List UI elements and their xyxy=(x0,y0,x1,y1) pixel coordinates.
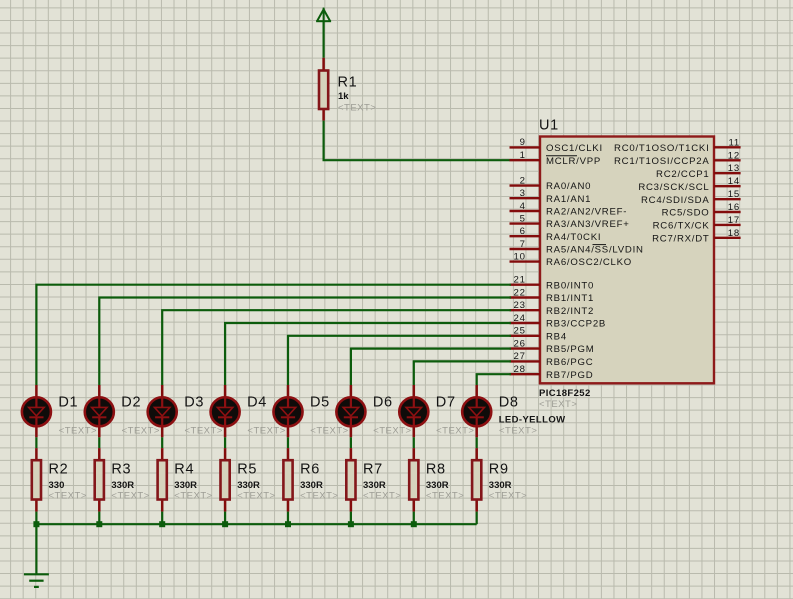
svg-text:RC7/RX/DT: RC7/RX/DT xyxy=(652,233,709,244)
LED D1 xyxy=(22,385,51,437)
svg-text:<TEXT>: <TEXT> xyxy=(436,426,474,437)
LED D4 xyxy=(211,385,240,437)
svg-text:RA2/AN2/VREF-: RA2/AN2/VREF- xyxy=(546,207,627,218)
pin 1 MCLR/VPP xyxy=(510,150,602,167)
svg-text:<TEXT>: <TEXT> xyxy=(338,103,376,114)
svg-text:25: 25 xyxy=(514,326,526,337)
svg-text:R6: R6 xyxy=(300,461,320,477)
wire D4 to R5 xyxy=(224,437,226,448)
pin 14 RC3/SCK/SCL xyxy=(638,176,740,193)
svg-text:OSC1/CLKI: OSC1/CLKI xyxy=(546,143,603,154)
svg-text:RB7/PGD: RB7/PGD xyxy=(546,370,593,381)
pin 28 RB7/PGD xyxy=(510,364,594,381)
svg-text:D8: D8 xyxy=(499,395,519,411)
resistor R2 xyxy=(32,448,41,512)
junction xyxy=(411,521,417,527)
junction xyxy=(348,521,354,527)
pin 21 RB0/INT0 xyxy=(510,275,595,292)
svg-text:RB1/INT1: RB1/INT1 xyxy=(546,293,594,304)
svg-text:11: 11 xyxy=(728,137,740,148)
pin 3 RA1/AN1 xyxy=(510,188,592,205)
svg-text:RA0/AN0: RA0/AN0 xyxy=(546,181,591,192)
svg-text:330R: 330R xyxy=(111,480,134,491)
svg-text:330R: 330R xyxy=(363,480,386,491)
svg-text:<TEXT>: <TEXT> xyxy=(310,426,348,437)
wire RB1 (pin 22) to D2 xyxy=(99,298,511,386)
svg-text:15: 15 xyxy=(728,189,740,200)
svg-text:<TEXT>: <TEXT> xyxy=(237,490,275,501)
MCLR overline xyxy=(546,155,577,157)
svg-text:330R: 330R xyxy=(300,480,323,491)
junction xyxy=(96,521,102,527)
svg-text:13: 13 xyxy=(728,163,740,174)
svg-text:R2: R2 xyxy=(49,461,69,477)
svg-text:330R: 330R xyxy=(237,480,260,491)
svg-text:<TEXT>: <TEXT> xyxy=(111,490,149,501)
wire R3 to bus xyxy=(98,512,100,525)
svg-text:1: 1 xyxy=(520,150,526,161)
svg-text:27: 27 xyxy=(514,351,526,362)
svg-text:330R: 330R xyxy=(426,480,449,491)
resistor R6 xyxy=(283,448,292,512)
svg-text:18: 18 xyxy=(728,228,740,239)
junction xyxy=(285,521,291,527)
ground xyxy=(24,574,49,587)
SS overline xyxy=(593,244,607,246)
svg-text:10: 10 xyxy=(514,251,526,262)
svg-text:28: 28 xyxy=(514,364,526,375)
LED D3 xyxy=(148,385,177,437)
pin 17 RC6/TX/CK xyxy=(653,215,741,232)
svg-text:RB0/INT0: RB0/INT0 xyxy=(546,280,594,291)
wire RB0 (pin 21) to D1 xyxy=(36,285,511,385)
svg-text:RC0/T1OSO/T1CKI: RC0/T1OSO/T1CKI xyxy=(614,143,709,154)
svg-text:D4: D4 xyxy=(247,395,267,411)
svg-text:14: 14 xyxy=(728,176,740,187)
svg-text:RB3/CCP2B: RB3/CCP2B xyxy=(546,319,606,330)
svg-text:17: 17 xyxy=(728,215,740,226)
svg-text:1k: 1k xyxy=(338,91,349,102)
wire D8 to R9 xyxy=(476,437,478,448)
pin 24 RB3/CCP2B xyxy=(510,313,607,330)
svg-text:D2: D2 xyxy=(121,395,141,411)
svg-text:RC3/SCK/SCL: RC3/SCK/SCL xyxy=(638,182,709,193)
wire RB7 (pin 28) to D8 xyxy=(477,374,511,385)
junction xyxy=(33,521,39,527)
svg-text:RB4: RB4 xyxy=(546,331,567,342)
resistor R3 xyxy=(95,448,104,512)
svg-text:R4: R4 xyxy=(174,461,194,477)
pin 5 RA3/AN3/VREF+ xyxy=(510,213,630,230)
resistor R1 xyxy=(319,58,328,121)
svg-text:D6: D6 xyxy=(373,395,393,411)
svg-text:<TEXT>: <TEXT> xyxy=(300,490,338,501)
resistor R9 xyxy=(472,448,481,512)
svg-text:LED-YELLOW: LED-YELLOW xyxy=(499,415,566,426)
svg-text:PIC18F252: PIC18F252 xyxy=(539,388,591,399)
pin 9 OSC1/CLKI xyxy=(510,137,603,154)
pin 12 RC1/T1OSI/CCP2A xyxy=(614,150,741,167)
svg-text:12: 12 xyxy=(728,150,740,161)
power symbol VCC xyxy=(316,8,331,22)
svg-text:R7: R7 xyxy=(363,461,383,477)
svg-text:<TEXT>: <TEXT> xyxy=(49,490,87,501)
pin 6 RA4/T0CKI xyxy=(510,226,602,243)
svg-text:<TEXT>: <TEXT> xyxy=(426,490,464,501)
pin 23 RB2/INT2 xyxy=(510,300,595,317)
svg-text:MCLR/VPP: MCLR/VPP xyxy=(546,156,601,167)
wire RB2 (pin 23) to D3 xyxy=(162,310,511,385)
wire R6 to bus xyxy=(287,512,289,525)
svg-text:D5: D5 xyxy=(310,395,330,411)
LED D5 xyxy=(273,385,302,437)
svg-text:RB5/PGM: RB5/PGM xyxy=(546,344,594,355)
svg-text:RA4/T0CKI: RA4/T0CKI xyxy=(546,232,601,243)
resistor R8 xyxy=(409,448,418,512)
svg-text:5: 5 xyxy=(520,213,526,224)
wire D7 to R8 xyxy=(413,437,415,448)
svg-text:6: 6 xyxy=(520,226,526,237)
svg-text:22: 22 xyxy=(514,287,526,298)
svg-text:R3: R3 xyxy=(111,461,131,477)
pin 4 RA2/AN2/VREF- xyxy=(510,201,628,218)
wire bus to ground xyxy=(35,524,37,574)
pin 7 RA5/AN4/SS/LVDIN xyxy=(510,239,644,256)
svg-text:D7: D7 xyxy=(436,395,456,411)
svg-text:<TEXT>: <TEXT> xyxy=(247,426,285,437)
svg-text:<TEXT>: <TEXT> xyxy=(489,490,527,501)
wire R5 to bus xyxy=(224,512,226,525)
LED D6 xyxy=(336,385,365,437)
junction xyxy=(159,521,165,527)
svg-text:<TEXT>: <TEXT> xyxy=(363,490,401,501)
wire RB6 (pin 27) to D7 xyxy=(414,361,511,385)
svg-text:330R: 330R xyxy=(489,480,512,491)
chip U1 PIC18F252 body xyxy=(540,137,714,384)
wire R9 to bus xyxy=(476,512,478,525)
wire power to R1 xyxy=(323,21,325,58)
wire D3 to R4 xyxy=(161,437,163,448)
wire RB4 (pin 25) to D5 xyxy=(288,336,511,385)
wire D1 to R2 xyxy=(35,437,37,448)
svg-text:RA5/AN4/SS/LVDIN: RA5/AN4/SS/LVDIN xyxy=(546,245,644,256)
pin 18 RC7/RX/DT xyxy=(652,228,740,245)
svg-text:RC6/TX/CK: RC6/TX/CK xyxy=(653,221,710,232)
wire R4 to bus xyxy=(161,512,163,525)
svg-text:R8: R8 xyxy=(426,461,446,477)
svg-text:RA1/AN1: RA1/AN1 xyxy=(546,194,591,205)
svg-text:<TEXT>: <TEXT> xyxy=(122,426,160,437)
svg-text:<TEXT>: <TEXT> xyxy=(59,426,97,437)
pin 10 RA6/OSC2/CLKO xyxy=(510,251,633,268)
wire R2 to bus xyxy=(35,512,37,525)
wire RB5 (pin 26) to D6 xyxy=(351,349,511,385)
svg-text:RA6/OSC2/CLKO: RA6/OSC2/CLKO xyxy=(546,257,632,268)
pin 11 RC0/T1OSO/T1CKI xyxy=(614,137,741,154)
svg-text:2: 2 xyxy=(520,175,526,186)
svg-text:R1: R1 xyxy=(338,75,358,91)
pin 27 RB6/PGC xyxy=(510,351,594,368)
svg-text:RA3/AN3/VREF+: RA3/AN3/VREF+ xyxy=(546,219,630,230)
svg-text:330R: 330R xyxy=(174,480,197,491)
wire D2 to R3 xyxy=(98,437,100,448)
svg-text:<TEXT>: <TEXT> xyxy=(373,426,411,437)
svg-text:<TEXT>: <TEXT> xyxy=(174,490,212,501)
svg-text:D1: D1 xyxy=(58,395,78,411)
svg-text:7: 7 xyxy=(520,239,526,250)
svg-text:<TEXT>: <TEXT> xyxy=(499,426,537,437)
svg-text:21: 21 xyxy=(514,275,526,286)
LED D2 xyxy=(85,385,114,437)
svg-text:4: 4 xyxy=(520,201,526,212)
svg-text:26: 26 xyxy=(514,338,526,349)
wire R7 to bus xyxy=(350,512,352,525)
pin 22 RB1/INT1 xyxy=(510,287,595,304)
pin 15 RC4/SDI/SDA xyxy=(641,189,741,206)
svg-text:330: 330 xyxy=(49,480,65,491)
wire R1 to MCLR pin xyxy=(324,121,510,161)
resistor R5 xyxy=(221,448,230,512)
pin 2 RA0/AN0 xyxy=(510,175,592,192)
svg-text:16: 16 xyxy=(728,202,740,213)
LED D7 xyxy=(399,385,428,437)
wire ground bus xyxy=(36,523,476,525)
svg-text:<TEXT>: <TEXT> xyxy=(539,399,577,410)
svg-text:23: 23 xyxy=(514,300,526,311)
svg-text:RB6/PGC: RB6/PGC xyxy=(546,357,593,368)
svg-text:9: 9 xyxy=(520,137,526,148)
LED D8 xyxy=(462,385,491,437)
wire RB3 (pin 24) to D4 xyxy=(225,323,511,385)
wire D6 to R7 xyxy=(350,437,352,448)
svg-text:RC1/T1OSI/CCP2A: RC1/T1OSI/CCP2A xyxy=(614,156,710,167)
pin 13 RC2/CCP1 xyxy=(656,163,741,180)
svg-text:RC4/SDI/SDA: RC4/SDI/SDA xyxy=(641,195,710,206)
pin 16 RC5/SDO xyxy=(662,202,741,219)
svg-text:RC5/SDO: RC5/SDO xyxy=(662,208,710,219)
svg-text:D3: D3 xyxy=(184,395,204,411)
svg-text:RC2/CCP1: RC2/CCP1 xyxy=(656,169,709,180)
pin 25 RB4 xyxy=(510,326,567,343)
wire D5 to R6 xyxy=(287,437,289,448)
junction xyxy=(222,521,228,527)
svg-text:R5: R5 xyxy=(237,461,257,477)
svg-text:3: 3 xyxy=(520,188,526,199)
svg-text:RB2/INT2: RB2/INT2 xyxy=(546,306,594,317)
svg-text:U1: U1 xyxy=(539,117,559,133)
svg-text:24: 24 xyxy=(514,313,526,324)
svg-text:R9: R9 xyxy=(489,461,509,477)
pin 26 RB5/PGM xyxy=(510,338,595,355)
resistor R4 xyxy=(158,448,167,512)
svg-text:<TEXT>: <TEXT> xyxy=(185,426,223,437)
wire R8 to bus xyxy=(413,512,415,525)
resistor R7 xyxy=(346,448,355,512)
